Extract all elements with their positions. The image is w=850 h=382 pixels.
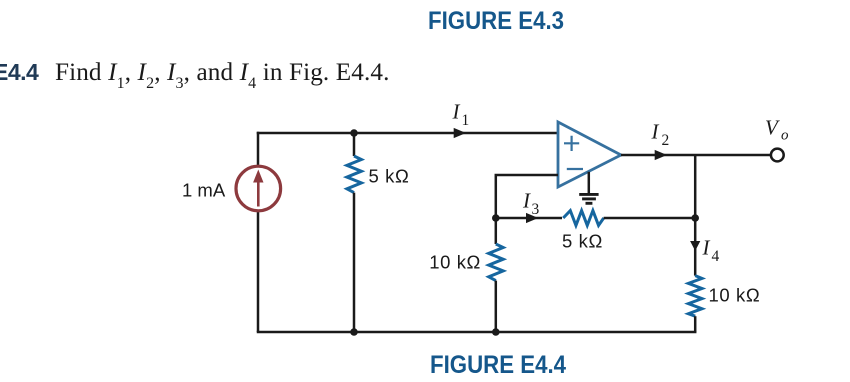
svg-text:10 kΩ: 10 kΩ	[709, 284, 761, 305]
svg-text:2: 2	[662, 132, 670, 149]
wire op-amp minus input to feedback node	[496, 175, 558, 218]
node dot bottom of R2	[492, 328, 500, 336]
resistor R2 10 kOhm (middle vertical)	[495, 218, 498, 244]
arrow I1	[454, 128, 466, 138]
svg-text:I: I	[452, 100, 461, 124]
svg-text:1: 1	[462, 112, 470, 129]
resistor R1 5 kOhm (left vertical)	[353, 133, 356, 156]
wire left vertical upper (source to top wire)	[257, 132, 260, 166]
wire left vertical lower (source to bottom wire)	[257, 211, 260, 332]
ground	[588, 172, 591, 194]
figure caption FIGURE E4.4	[430, 351, 566, 380]
node dot top of R1	[350, 129, 358, 137]
wire op-amp output to Vo	[621, 154, 771, 157]
wire bottom (ground rail)	[257, 331, 697, 334]
node dot right junction	[691, 214, 699, 222]
svg-text:V: V	[765, 116, 780, 140]
resistor R3 5 kOhm (horizontal feedback)	[563, 211, 604, 226]
svg-text:I: I	[651, 119, 660, 143]
svg-text:3: 3	[532, 201, 540, 218]
svg-text:4: 4	[712, 248, 720, 265]
wire feedback node to R3	[496, 217, 562, 220]
wire R3 to right branch	[604, 217, 696, 220]
svg-text:I: I	[702, 236, 711, 260]
op-amp U1	[558, 122, 621, 187]
svg-text:5 kΩ: 5 kΩ	[562, 230, 603, 251]
wire top (node A to op-amp + input)	[257, 132, 558, 135]
problem statement E4.4	[0, 59, 390, 87]
svg-text:1 mA: 1 mA	[182, 180, 226, 201]
figure caption FIGURE E4.3	[428, 7, 564, 36]
node dot feedback junction	[492, 214, 500, 222]
svg-text:I: I	[522, 188, 531, 212]
arrow I2	[655, 150, 667, 160]
wire right branch vertical	[694, 155, 697, 276]
terminal Vo	[771, 149, 784, 162]
arrow I3	[526, 213, 538, 223]
svg-text:10 kΩ: 10 kΩ	[429, 252, 481, 273]
resistor R4 10 kOhm (right vertical)	[688, 276, 702, 317]
arrow I4	[690, 241, 700, 251]
node dot bottom of R1	[350, 328, 358, 336]
svg-text:o: o	[781, 127, 789, 143]
current source 1 mA	[236, 166, 281, 211]
svg-text:5 kΩ: 5 kΩ	[369, 166, 410, 187]
